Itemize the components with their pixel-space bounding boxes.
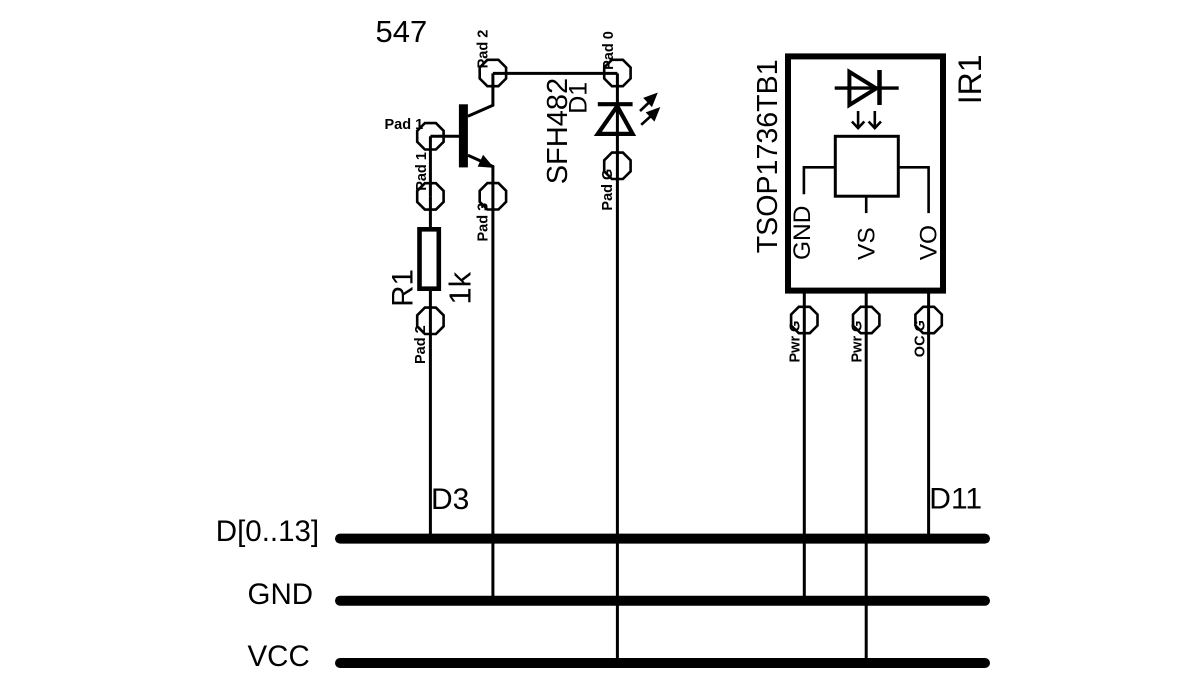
- pad octagon base: [417, 123, 443, 149]
- IC IR1 GND stub: [804, 167, 835, 194]
- LED D1 emission arrow 1: [640, 94, 657, 111]
- LED D1 cathode bar: [598, 102, 633, 106]
- LED D1 triangle: [598, 106, 633, 134]
- bus GND: [340, 596, 985, 606]
- svg-text:Pwr G: Pwr G: [849, 321, 865, 363]
- wire collector pad to LED pad: [493, 72, 618, 75]
- wire R1 pad to resistor top: [429, 196, 432, 227]
- svg-text:D3: D3: [431, 483, 469, 516]
- pad octagon R1 bottom: [417, 308, 443, 334]
- svg-text:1k: 1k: [443, 271, 478, 304]
- pad octagon R1 top: [417, 183, 443, 209]
- svg-text:R1: R1: [386, 269, 419, 307]
- svg-text:IR1: IR1: [952, 55, 988, 105]
- IC IR1 detector square: [835, 136, 898, 196]
- svg-text:GND: GND: [248, 578, 314, 611]
- IC IR1 photodiode line: [835, 86, 899, 89]
- IC IR1 light arrow 1: [852, 111, 864, 128]
- IC IR1 VS stub: [865, 196, 868, 213]
- wire emitter to GND bus: [468, 155, 493, 601]
- pad octagon IR1 VS: [853, 307, 879, 333]
- transistor Q1 base bar: [459, 104, 468, 167]
- wire R1 bottom to D bus (net D3): [429, 291, 432, 539]
- svg-text:D11: D11: [929, 483, 982, 516]
- svg-text:D1: D1: [564, 82, 592, 114]
- svg-text:VCC: VCC: [248, 640, 310, 673]
- IC IR1 box outline: [788, 56, 943, 290]
- svg-text:VO: VO: [915, 225, 942, 260]
- pad octagon IR1 GND: [791, 307, 817, 333]
- wire IR1 VS pin to VCC bus: [865, 293, 868, 663]
- wire base horizontal: [430, 135, 459, 138]
- IC IR1 photodiode cathode bar: [877, 70, 882, 105]
- svg-text:GND: GND: [789, 206, 816, 260]
- svg-text:VS: VS: [853, 227, 880, 260]
- svg-text:TSOP1736TB1: TSOP1736TB1: [752, 59, 784, 253]
- pad octagon LED top: [604, 60, 630, 86]
- wire IR1 VO pin to D bus (net D11): [927, 293, 930, 539]
- transistor Q1 emitter arrowhead: [478, 156, 493, 168]
- pad octagon collector: [480, 60, 506, 86]
- IC IR1 VO stub: [898, 167, 928, 213]
- LED D1 emission arrow 2: [641, 108, 659, 125]
- pad octagon emitter: [480, 183, 506, 209]
- resistor R1 body: [420, 229, 439, 288]
- wire IR1 GND pin to GND bus: [803, 293, 806, 601]
- wire LED column to VCC bus: [616, 73, 619, 663]
- svg-text:Pwr G: Pwr G: [787, 321, 803, 363]
- pad octagon IR1 VO: [915, 307, 941, 333]
- svg-text:D[0..13]: D[0..13]: [216, 515, 319, 548]
- pad octagon LED bottom: [604, 153, 630, 179]
- bus D[0..13]: [340, 534, 985, 544]
- IC IR1 photodiode triangle: [849, 72, 876, 105]
- bus VCC: [340, 658, 985, 668]
- wire collector: [468, 73, 493, 116]
- IC IR1 light arrow 2: [869, 111, 881, 128]
- wire base pad to R1 pad: [429, 136, 432, 196]
- svg-text:547: 547: [376, 14, 428, 49]
